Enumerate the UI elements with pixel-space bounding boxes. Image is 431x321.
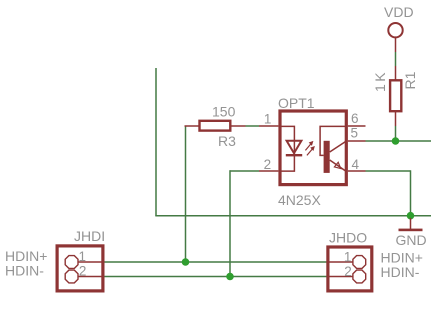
svg-text:6: 6 xyxy=(351,111,359,126)
svg-text:VDD: VDD xyxy=(384,4,414,20)
svg-text:GND: GND xyxy=(396,232,427,248)
svg-text:5: 5 xyxy=(350,126,358,141)
svg-text:4N25X: 4N25X xyxy=(278,192,321,208)
svg-text:1: 1 xyxy=(78,249,86,264)
svg-text:R3: R3 xyxy=(218,133,236,149)
svg-text:2: 2 xyxy=(344,264,352,279)
svg-text:1: 1 xyxy=(264,112,272,127)
svg-text:4: 4 xyxy=(352,157,360,172)
svg-text:R1: R1 xyxy=(402,71,418,89)
svg-text:2: 2 xyxy=(264,157,272,172)
svg-text:JHDI: JHDI xyxy=(74,228,105,244)
svg-text:HDIN-: HDIN- xyxy=(381,264,420,280)
svg-text:1: 1 xyxy=(344,250,352,265)
svg-text:HDIN-: HDIN- xyxy=(5,263,44,279)
svg-text:JHDO: JHDO xyxy=(329,230,367,246)
svg-text:1K: 1K xyxy=(372,70,388,92)
svg-text:OPT1: OPT1 xyxy=(278,95,315,111)
svg-text:150: 150 xyxy=(212,104,236,120)
svg-text:2: 2 xyxy=(79,264,87,279)
